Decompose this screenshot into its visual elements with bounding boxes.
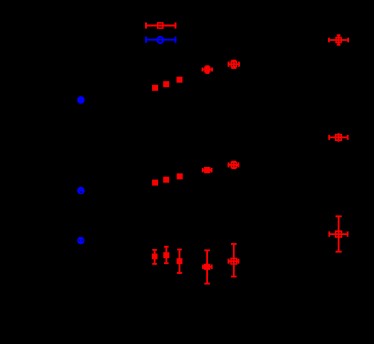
legend blue open circle marker bbox=[157, 37, 163, 43]
bottom series point b1 errorbars bbox=[152, 250, 157, 265]
legend blue errorbar line bbox=[145, 37, 176, 43]
top series point s5 open square bbox=[231, 62, 236, 67]
bottom series point b4 filled square bbox=[204, 264, 210, 270]
blue point c2 filled circle bbox=[77, 187, 85, 195]
legend red errorbar line bbox=[145, 22, 176, 28]
middle series point m2 filled square bbox=[163, 177, 169, 183]
top series point s4 filled square bbox=[204, 66, 210, 72]
right point r3 open square bbox=[336, 231, 342, 237]
top series point s4 errorbars bbox=[202, 66, 213, 74]
middle series point m4 errorbars bbox=[202, 168, 213, 173]
middle series point m5 errorbars bbox=[228, 161, 240, 169]
right point r1 errorbars bbox=[328, 35, 349, 46]
bottom series point b5 open square bbox=[231, 258, 237, 264]
top series point s5 errorbars bbox=[228, 60, 240, 69]
legend red open square marker bbox=[158, 23, 163, 28]
middle series point m3 filled square bbox=[177, 173, 183, 179]
right point r2 errorbars bbox=[328, 133, 348, 142]
top series point s3 filled square bbox=[177, 77, 183, 83]
top series point s1 filled square bbox=[152, 85, 158, 91]
bottom series point b3 filled square bbox=[177, 258, 183, 264]
bottom series point b3 errorbars bbox=[177, 249, 182, 273]
blue point c3 filled circle bbox=[77, 237, 84, 244]
top series point s2 filled square bbox=[163, 81, 169, 87]
bottom series point b2 errorbars bbox=[164, 246, 169, 263]
right point r2 open square bbox=[336, 135, 342, 141]
blue point c1 filled circle bbox=[77, 96, 85, 104]
bottom series point b1 filled square bbox=[152, 254, 158, 260]
bottom series point b4 errorbars bbox=[202, 250, 212, 284]
middle series point m4 filled square bbox=[204, 167, 210, 173]
right point r1 open square bbox=[336, 38, 341, 43]
middle series point m5 open square bbox=[231, 162, 236, 167]
right point r3 errorbars bbox=[329, 216, 349, 252]
middle series point m1 filled square bbox=[152, 180, 158, 186]
bottom series point b5 errorbars bbox=[228, 244, 240, 277]
bottom series point b2 filled square bbox=[163, 252, 169, 258]
